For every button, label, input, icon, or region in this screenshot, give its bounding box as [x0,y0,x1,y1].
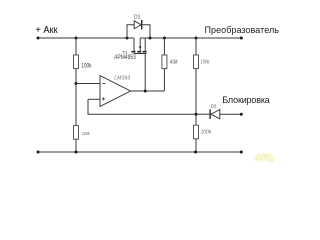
svg-text:APM4953: APM4953 [114,55,136,61]
diode D2 [210,103,220,119]
wire divider node to D2 [196,113,210,115]
resistor 100k upper-right [194,38,211,69]
wire bottom rail [38,151,241,153]
wire 43k bottom lead to output [163,69,165,91]
wire op-amp output [131,90,165,92]
wire top rail left segment [38,37,134,39]
svg-text:100k: 100k [81,63,92,69]
junction dot bottom right branch [194,151,197,154]
svg-text:100k: 100k [201,130,212,136]
svg-text:D2: D2 [211,103,217,108]
op-amp U1 LM393 [100,76,131,107]
wire right branch middle [195,69,197,126]
wire left branch middle [75,69,77,126]
junction dot gate output node [144,90,147,93]
wire top rail right segment [140,37,241,39]
junction dot D1 right [149,37,152,40]
wire D1 branch left riser [127,25,134,38]
wire D2 to Blokirovka terminal [220,113,242,115]
junction dot 100k right branch top [195,37,198,40]
svg-text:D1: D1 [134,15,141,21]
resistor 100k lower-left [74,126,91,140]
junction dot left branch top [75,37,78,40]
resistor 100k upper-left [74,38,93,69]
svg-text:+ Акк: + Акк [35,25,58,36]
resistor 100k lower-right [194,125,213,139]
wire right branch bottom lead [195,139,197,152]
terminal dot bottom right [240,151,243,154]
junction dot divider node [195,113,198,116]
watermark [255,153,274,163]
junction dot D1 left [126,37,129,40]
resistor 43k [162,38,178,69]
junction dot bottom left branch [75,151,78,154]
terminal dot + Akk [37,37,40,40]
svg-text:Блокировка: Блокировка [222,95,269,105]
terminal dot bottom left [37,151,40,154]
wire plus input feedback loop [88,99,196,114]
svg-text:Преобразователь: Преобразователь [205,25,280,35]
junction dot minus input node [75,82,78,85]
svg-text:43k: 43k [170,59,178,65]
wire minus input [76,83,100,85]
terminal dot Preobrazovatel [240,37,243,40]
wire T1 gate lead down to output node [144,54,146,91]
svg-text:LM393: LM393 [114,76,130,82]
svg-text:100k: 100k [82,131,91,137]
wire plus input [88,98,100,100]
diode D1 [134,15,142,30]
wire D1 branch right riser [142,25,150,38]
wire left branch bottom lead [75,139,77,152]
terminal dot Blokirovka [240,113,243,116]
transistor T1 APM4953 p-mosfet [114,38,147,61]
junction dot 43k branch top [163,37,166,40]
svg-text:100k: 100k [200,60,210,66]
